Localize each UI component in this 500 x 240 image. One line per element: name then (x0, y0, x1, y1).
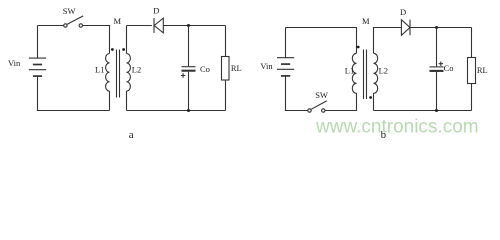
junction: capacitor bottom (a) (187, 109, 190, 112)
svg-text:D: D (400, 7, 406, 17)
plus sign of Co (a) (181, 73, 185, 77)
svg-text:RL: RL (231, 63, 242, 73)
phase dot primary (a) (111, 48, 114, 51)
svg-text:M: M (362, 16, 370, 26)
svg-text:Co: Co (444, 63, 454, 73)
battery Vin (a) (29, 58, 46, 76)
diode D (a), pointing left (154, 18, 163, 33)
wire: secondary winding bottom stub (a) (126, 91, 128, 110)
phase dot secondary (a) (122, 48, 125, 51)
svg-text:Vin: Vin (260, 61, 273, 71)
svg-text:a: a (129, 129, 134, 141)
wire: bottom rail secondary (a) (127, 110, 226, 112)
svg-text:www.cntronics.com: www.cntronics.com (315, 117, 479, 138)
wire: primary winding bottom stub (a) (109, 91, 111, 110)
wire: battery negative to bottom rail (a) (38, 76, 110, 110)
capacitor Co (b), polarized (430, 28, 444, 111)
svg-text:b: b (381, 129, 387, 141)
svg-text:SW: SW (63, 6, 76, 16)
svg-text:L2: L2 (132, 64, 141, 74)
svg-text:Co: Co (200, 64, 210, 74)
inductor L1 primary winding (a) (106, 54, 110, 92)
svg-text:Vin: Vin (8, 58, 21, 68)
wire: top-left from battery to switch (a) (38, 26, 64, 59)
inductor L2 secondary winding (b) (374, 53, 378, 93)
svg-text:RL: RL (477, 65, 488, 75)
switch SW (b) (308, 101, 327, 112)
wire: top rail battery to transformer primary (b) (286, 28, 357, 54)
phase dot secondary bottom (b) (369, 96, 372, 99)
transformer core (a) (117, 50, 120, 98)
junction: capacitor top (b) (435, 26, 438, 29)
resistor RL (b) (468, 28, 476, 111)
svg-text:SW: SW (315, 90, 328, 100)
diode D (b), pointing right (401, 20, 410, 36)
svg-text:M: M (114, 16, 122, 26)
svg-text:L1: L1 (95, 64, 104, 74)
wire: bottom rail secondary (b) (374, 110, 472, 112)
wire: diode to output node (a) (163, 25, 225, 27)
wire: battery top stub (b) (285, 28, 287, 58)
junction: capacitor bottom (b) (435, 109, 438, 112)
plus sign of Co (b) (439, 62, 443, 66)
transformer core (b) (364, 50, 367, 100)
phase dot primary top (b) (357, 46, 360, 49)
switch SW (a) (64, 16, 83, 27)
wire: switch to primary winding bottom (b) (325, 93, 357, 110)
inductor L2 secondary winding (a) (127, 54, 131, 92)
svg-text:D: D (153, 6, 159, 16)
battery Vin (b) (277, 58, 294, 76)
svg-text:L1: L1 (345, 66, 354, 76)
junction: capacitor top (a) (187, 24, 190, 27)
resistor RL (a) (222, 26, 230, 111)
capacitor Co (a), polarized (182, 26, 196, 111)
wire: switch to transformer primary top (a) (83, 26, 110, 54)
inductor L1 primary winding (b) (352, 53, 356, 93)
wire: secondary top stub to diode (a) (127, 26, 152, 54)
wire: battery negative to switch (b) (286, 76, 308, 111)
wire: diode to output node (b) (410, 27, 472, 29)
svg-text:L2: L2 (379, 66, 388, 76)
wire: secondary winding stubs (b) (374, 28, 402, 111)
